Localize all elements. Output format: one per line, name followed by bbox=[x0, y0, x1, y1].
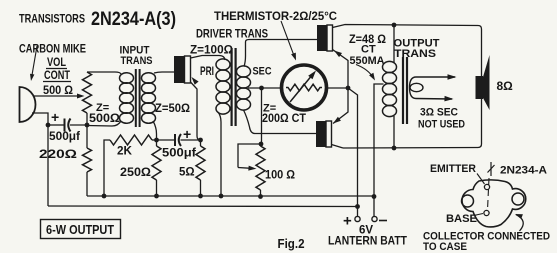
wire package centerline dashed bbox=[488, 178, 490, 210]
node pot 100 ground junction bbox=[258, 194, 263, 199]
node emitter Q1 junction bbox=[198, 138, 203, 143]
label COLLECTOR CONNECTED bbox=[423, 231, 550, 243]
wire driver secondary bottom to Q3 base bbox=[244, 110, 317, 134]
label 5 ohm bbox=[179, 167, 195, 179]
wire collector case arrow bbox=[515, 214, 523, 231]
wire base pointer bbox=[476, 214, 483, 216]
svg-text:Z=50Ω: Z=50Ω bbox=[155, 103, 190, 115]
svg-text:LANTERN BATT: LANTERN BATT bbox=[328, 236, 407, 248]
transistor package base pin bbox=[484, 210, 489, 215]
transistor package outline 2N234-A bbox=[462, 180, 526, 227]
label 8 ohm bbox=[497, 79, 514, 93]
wire primary bottom lead bbox=[393, 116, 395, 148]
node mike return junction bbox=[46, 123, 51, 128]
wire emitter pointer bbox=[477, 174, 485, 185]
label 500 ohm pri bbox=[89, 113, 120, 125]
centerline symbol bbox=[488, 162, 495, 176]
node 250ohm ground junction bbox=[154, 194, 159, 199]
label TRANS input bbox=[121, 55, 153, 67]
speaker SPK 8ohm bbox=[476, 55, 490, 110]
svg-text:250Ω: 250Ω bbox=[120, 167, 151, 179]
node driver primary ground junction bbox=[219, 194, 224, 199]
svg-text:Fig.2: Fig.2 bbox=[278, 237, 305, 251]
svg-text:EMITTER: EMITTER bbox=[430, 163, 476, 175]
svg-text:200Ω CT: 200Ω CT bbox=[262, 113, 306, 125]
label 200 ohm CT bbox=[262, 113, 306, 125]
label title TRANSISTORS bbox=[19, 12, 85, 26]
transformer T3 output secondary bbox=[410, 74, 457, 101]
svg-text:2N234-A: 2N234-A bbox=[500, 165, 547, 177]
label NOT USED bbox=[418, 119, 465, 131]
label 500uf C1 bbox=[49, 131, 80, 143]
node 2K ground junction bbox=[102, 194, 107, 199]
svg-text:220Ω: 220Ω bbox=[39, 149, 77, 161]
svg-text:100 Ω: 100 Ω bbox=[265, 170, 295, 182]
node primary bottom junction bbox=[392, 146, 397, 151]
svg-text:CT: CT bbox=[361, 44, 376, 56]
svg-text:500Ω: 500Ω bbox=[89, 113, 120, 125]
label 500 ohm vol bbox=[43, 85, 73, 97]
label CONT bbox=[44, 70, 70, 82]
wire positive bus bbox=[48, 205, 358, 208]
label Z=48 ohm bbox=[349, 32, 386, 46]
svg-text:Z=100Ω: Z=100Ω bbox=[190, 45, 233, 57]
label 2K bbox=[117, 146, 133, 158]
svg-text:PRI: PRI bbox=[200, 66, 214, 78]
node pot 100 top junction bbox=[259, 142, 264, 147]
node positive bus junction bbox=[355, 204, 360, 209]
svg-text:2N234-A(3): 2N234-A(3) bbox=[91, 8, 176, 30]
svg-text:500 Ω: 500 Ω bbox=[43, 85, 73, 97]
wire emitter bus to battery plus bbox=[348, 88, 358, 217]
svg-text:TO CASE: TO CASE bbox=[423, 241, 467, 253]
label PRI bbox=[200, 66, 214, 78]
label 6V bbox=[359, 225, 373, 237]
wire thermistor right bbox=[327, 87, 349, 89]
thermistor TH1 bbox=[282, 65, 327, 110]
wire input secondary top to T1 base bbox=[154, 72, 174, 73]
svg-text:TRANS: TRANS bbox=[394, 48, 436, 60]
svg-text:BASE: BASE bbox=[446, 213, 477, 225]
label INPUT bbox=[120, 45, 150, 57]
label Fig.2 bbox=[278, 237, 305, 251]
transformer T3 output primary coil bbox=[383, 61, 397, 116]
svg-text:SEC: SEC bbox=[253, 66, 272, 78]
resistor R2 220ohm bbox=[83, 125, 92, 196]
svg-text:THERMISTOR-2Ω/25°C: THERMISTOR-2Ω/25°C bbox=[214, 11, 337, 23]
node negative bus to CT junction bbox=[372, 194, 377, 199]
svg-text:3Ω SEC: 3Ω SEC bbox=[420, 107, 458, 119]
label OUTPUT bbox=[394, 38, 440, 50]
resistor R3 2K bbox=[104, 135, 157, 196]
wire Q2 collector top rail bbox=[333, 25, 482, 149]
svg-text:+: + bbox=[343, 213, 352, 230]
wire CT tap vertical bbox=[261, 88, 263, 144]
svg-text:6-W OUTPUT: 6-W OUTPUT bbox=[46, 223, 114, 237]
label Z=100 ohm bbox=[190, 45, 233, 57]
label 3 ohm SEC bbox=[420, 107, 458, 119]
wire Q3 emitter bbox=[333, 88, 348, 124]
node 2K junction A bbox=[154, 138, 159, 143]
label title 2N234-A(3) bbox=[91, 8, 176, 30]
label Z= 200 bbox=[263, 103, 276, 115]
wire input secondary bottom bbox=[153, 121, 157, 140]
label DRIVER TRANS bbox=[196, 29, 268, 41]
wire pot top to input primary bbox=[87, 72, 121, 74]
svg-text:DRIVER TRANS: DRIVER TRANS bbox=[196, 29, 268, 41]
battery terminal minus bbox=[372, 216, 377, 221]
transformer T1 input primary coil bbox=[120, 73, 134, 124]
label 500uf C2 bbox=[162, 148, 196, 160]
capacitor C2 500uf bbox=[157, 134, 201, 146]
wire 550MA annotation arrow bbox=[356, 65, 375, 81]
label Z=50 ohm bbox=[155, 103, 190, 115]
label CARBON MIKE bbox=[19, 44, 86, 56]
transformer T2 driver primary coil bbox=[216, 59, 230, 114]
wire driver secondary top to Q2 base bbox=[244, 40, 317, 67]
wire Q1 emitter bbox=[191, 77, 201, 140]
wire Q3 collector bbox=[332, 145, 344, 149]
wire thermistor annotation arrow bbox=[281, 21, 296, 61]
svg-text:500μf: 500μf bbox=[162, 148, 196, 160]
capacitor C1 500uf bbox=[48, 119, 87, 132]
transformer T1 input core bbox=[136, 69, 140, 127]
svg-text:8Ω: 8Ω bbox=[497, 79, 514, 93]
svg-text:VOL: VOL bbox=[47, 57, 66, 69]
label 250 ohm bbox=[120, 167, 151, 179]
svg-text:CARBON MIKE: CARBON MIKE bbox=[19, 44, 86, 56]
label 550MA bbox=[350, 55, 385, 67]
label 100 ohm bbox=[265, 170, 295, 182]
transistor package left hole bbox=[462, 195, 474, 207]
svg-text:NOT USED: NOT USED bbox=[418, 119, 465, 131]
label TO CASE bbox=[423, 241, 467, 253]
wire mike annotation arrow bbox=[30, 46, 37, 81]
potentiometer R6 100ohm bbox=[238, 144, 265, 197]
node emitter bus junction bbox=[346, 86, 351, 91]
wire Q1 collector bbox=[191, 56, 226, 61]
transformer T2 driver core bbox=[232, 48, 236, 126]
node 5ohm ground junction bbox=[198, 194, 203, 199]
transformer T2 driver secondary coil bbox=[237, 66, 251, 110]
wire primary top lead bbox=[393, 25, 395, 63]
transistor package right hole bbox=[512, 193, 524, 205]
label THERMISTOR-2ohm/25C bbox=[214, 11, 337, 23]
label minus battery bbox=[379, 220, 387, 222]
label BASE bbox=[446, 213, 477, 225]
svg-text:550MA: 550MA bbox=[350, 55, 385, 67]
wire driver secondary CT tap bbox=[248, 87, 281, 89]
svg-text:2K: 2K bbox=[117, 146, 133, 158]
label CT bbox=[361, 44, 376, 56]
node pot bottom junction bbox=[85, 123, 90, 128]
wire mike wiper arrow bbox=[77, 94, 85, 99]
wire driver primary bottom to ground bbox=[218, 112, 221, 196]
label VOL bbox=[47, 57, 66, 69]
svg-text:+: + bbox=[51, 109, 59, 125]
svg-text:5Ω: 5Ω bbox=[179, 167, 195, 179]
wire negative bus bbox=[87, 195, 373, 197]
battery terminal plus bbox=[355, 216, 360, 221]
label Z= input pri bbox=[96, 102, 109, 114]
label 220 ohm bbox=[39, 149, 77, 161]
node primary top junction bbox=[392, 23, 397, 28]
microphone MIC carbon mike bbox=[20, 87, 36, 122]
resistor R4 250ohm bbox=[152, 140, 161, 196]
svg-text:CONT: CONT bbox=[44, 70, 70, 82]
transistor Q2 2N234-A output bbox=[317, 25, 333, 51]
wire mike top lead bbox=[33, 95, 79, 97]
label plus C1 bbox=[51, 109, 59, 125]
svg-text:TRANSISTORS: TRANSISTORS bbox=[19, 12, 85, 26]
wire VOL underline bbox=[46, 68, 67, 70]
transformer T1 input secondary coil bbox=[142, 73, 156, 124]
resistor R5 5ohm bbox=[196, 140, 205, 196]
label 2N234-A pkg bbox=[500, 165, 547, 177]
wire pot bottom bbox=[86, 113, 88, 125]
label plus C2 bbox=[183, 126, 191, 142]
transformer T3 output core bbox=[403, 57, 407, 124]
label SEC bbox=[253, 66, 272, 78]
wire primary CT to battery minus bbox=[374, 84, 384, 217]
label TRANS output bbox=[394, 48, 436, 60]
transistor Q1 2N234-A driver bbox=[174, 56, 191, 83]
wire mike bottom lead bbox=[32, 113, 48, 206]
svg-text:500μf: 500μf bbox=[49, 131, 80, 143]
node CT tap junction bbox=[259, 86, 264, 91]
label EMITTER bbox=[430, 163, 476, 175]
label box 6-W OUTPUT bbox=[41, 220, 121, 239]
potentiometer R1 500ohm volume bbox=[83, 72, 92, 113]
wire Q2 emitter bbox=[333, 50, 349, 89]
transistor Q3 2N234-A output bbox=[316, 121, 332, 147]
label plus battery bbox=[343, 213, 352, 230]
svg-text:TRANS: TRANS bbox=[121, 55, 153, 67]
wire CONT underline bbox=[43, 81, 71, 83]
wire input primary bottom to pot bbox=[87, 121, 121, 126]
transistor package emitter pin bbox=[484, 184, 489, 189]
label LANTERN BATT bbox=[328, 236, 407, 248]
